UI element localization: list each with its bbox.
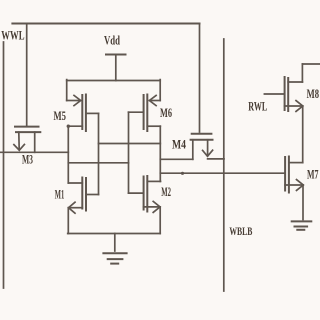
- wire right gate column: [128, 112, 130, 193]
- ground right: [292, 221, 312, 229]
- svg-text:M4: M4: [172, 137, 186, 152]
- wire left gate column: [67, 126, 69, 183]
- wire M8 source to M7 drain: [302, 106, 304, 163]
- wire M8 drain to edge: [302, 63, 320, 65]
- svg-text:M1: M1: [55, 188, 65, 202]
- wire inverter Vdd rail: [67, 80, 161, 82]
- wire cross link A: [99, 143, 161, 145]
- transistor M8: [264, 64, 319, 111]
- transistor M4: [172, 24, 213, 160]
- transistor M6: [129, 80, 173, 131]
- transistor M2: [129, 176, 172, 234]
- svg-text:M5: M5: [54, 108, 67, 123]
- wire WBLB bitline: [223, 39, 225, 291]
- wire cross link B: [68, 162, 128, 164]
- wire node QB column: [159, 126, 161, 181]
- transistor M7: [285, 157, 319, 220]
- svg-text:Vdd: Vdd: [104, 34, 120, 48]
- ground: [103, 234, 126, 264]
- svg-text:M8: M8: [307, 86, 320, 101]
- wire M4 to WBLB: [208, 158, 224, 160]
- transistor M5: [54, 80, 99, 131]
- wire M4 to node QB: [160, 158, 193, 160]
- node junction dot: [181, 172, 184, 175]
- svg-text:WBLB: WBLB: [229, 224, 252, 238]
- power Vdd: [104, 34, 126, 81]
- wire WBL bitline: [3, 42, 5, 288]
- svg-text:RWL: RWL: [248, 99, 267, 114]
- wire node Q column: [98, 113, 100, 194]
- svg-text:M6: M6: [160, 105, 172, 120]
- svg-text:M2: M2: [161, 185, 171, 199]
- wire M3 access wire: [0, 151, 68, 153]
- transistor M3: [14, 24, 40, 167]
- svg-text:M3: M3: [22, 153, 33, 167]
- svg-text:WWL: WWL: [1, 29, 24, 43]
- transistor M1: [55, 178, 99, 234]
- wire ground rail: [68, 233, 161, 235]
- wire M7 gate wire: [160, 172, 285, 174]
- wire WWL rail: [12, 23, 199, 25]
- svg-text:M7: M7: [307, 167, 319, 182]
